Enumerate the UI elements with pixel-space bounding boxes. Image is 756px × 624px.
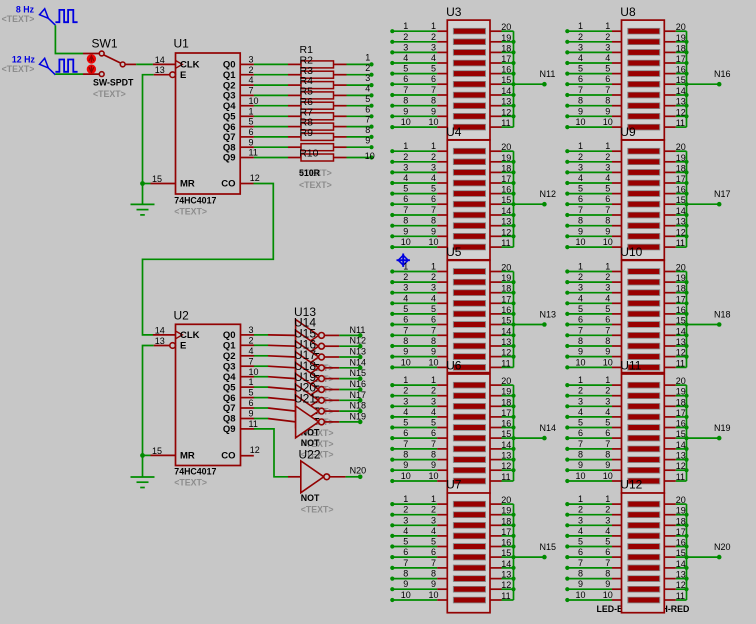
svg-text:Q1: Q1 bbox=[223, 341, 236, 352]
svg-text:8: 8 bbox=[578, 336, 583, 346]
svg-text:9: 9 bbox=[605, 347, 610, 357]
NOT gate U15 output terminal N13 bbox=[268, 327, 366, 395]
NOT gate U22 output terminal N20 bbox=[288, 447, 366, 514]
svg-text:14: 14 bbox=[501, 559, 511, 569]
svg-text:11: 11 bbox=[501, 118, 510, 128]
svg-text:U2: U2 bbox=[174, 309, 190, 323]
svg-text:5: 5 bbox=[578, 304, 583, 314]
svg-text:17: 17 bbox=[676, 294, 686, 304]
svg-text:2: 2 bbox=[578, 272, 583, 282]
svg-text:7: 7 bbox=[578, 439, 583, 449]
svg-text:10: 10 bbox=[365, 151, 375, 161]
svg-text:10: 10 bbox=[249, 96, 259, 106]
svg-text:SW1: SW1 bbox=[92, 36, 118, 50]
svg-text:4: 4 bbox=[403, 293, 408, 303]
svg-text:4: 4 bbox=[403, 53, 408, 63]
origin marker bbox=[397, 254, 410, 267]
NOT gate U19 output terminal N17 bbox=[268, 370, 366, 438]
svg-text:8: 8 bbox=[431, 450, 436, 460]
svg-text:14: 14 bbox=[676, 326, 686, 336]
svg-text:7: 7 bbox=[403, 205, 408, 215]
svg-text:9: 9 bbox=[431, 579, 436, 589]
svg-text:3: 3 bbox=[403, 42, 408, 52]
svg-text:6: 6 bbox=[578, 315, 583, 325]
svg-text:Q9: Q9 bbox=[223, 153, 236, 164]
svg-text:8: 8 bbox=[365, 125, 370, 135]
svg-text:16: 16 bbox=[676, 538, 686, 548]
svg-text:U7: U7 bbox=[446, 478, 462, 492]
svg-text:U1: U1 bbox=[174, 37, 190, 51]
svg-text:1: 1 bbox=[578, 494, 583, 504]
svg-text:2: 2 bbox=[403, 32, 408, 42]
counter U1 74HC4017 bbox=[151, 37, 260, 217]
LED bargraph U3 with terminals, net N11 bbox=[390, 5, 555, 140]
svg-text:7: 7 bbox=[578, 205, 583, 215]
svg-text:2: 2 bbox=[578, 152, 583, 162]
LED bargraph U8 with terminals, net N16 bbox=[565, 5, 730, 140]
svg-text:10: 10 bbox=[428, 117, 438, 127]
svg-text:E: E bbox=[180, 341, 186, 352]
svg-text:2: 2 bbox=[431, 386, 436, 396]
svg-text:1: 1 bbox=[249, 106, 254, 116]
svg-text:12: 12 bbox=[501, 348, 511, 358]
svg-text:8: 8 bbox=[578, 569, 583, 579]
svg-text:1: 1 bbox=[403, 141, 408, 151]
svg-text:7: 7 bbox=[578, 85, 583, 95]
svg-text:13: 13 bbox=[501, 217, 511, 227]
svg-text:5: 5 bbox=[249, 117, 254, 127]
svg-text:14: 14 bbox=[501, 440, 511, 450]
svg-text:11: 11 bbox=[249, 148, 258, 158]
svg-text:2: 2 bbox=[578, 505, 583, 515]
LED bargraph U7 with terminals, net N15 bbox=[390, 478, 556, 613]
svg-text:17: 17 bbox=[501, 527, 511, 537]
svg-text:4: 4 bbox=[403, 173, 408, 183]
svg-text:SW-SPDT: SW-SPDT bbox=[93, 78, 134, 88]
svg-text:6: 6 bbox=[249, 127, 254, 137]
svg-text:6: 6 bbox=[431, 547, 436, 557]
svg-text:13: 13 bbox=[501, 570, 511, 580]
svg-text:18: 18 bbox=[501, 397, 511, 407]
svg-text:Q4: Q4 bbox=[223, 372, 236, 383]
svg-text:5: 5 bbox=[403, 184, 408, 194]
svg-text:20: 20 bbox=[676, 142, 686, 152]
svg-text:1: 1 bbox=[605, 141, 610, 151]
svg-text:4: 4 bbox=[431, 53, 436, 63]
LED bargraph U9 with terminals, net N17 bbox=[565, 125, 730, 260]
svg-text:16: 16 bbox=[501, 65, 511, 75]
svg-text:2: 2 bbox=[605, 152, 610, 162]
svg-text:2: 2 bbox=[605, 386, 610, 396]
svg-text:4: 4 bbox=[605, 293, 610, 303]
svg-text:15: 15 bbox=[501, 316, 511, 326]
svg-text:12 Hz: 12 Hz bbox=[12, 54, 36, 64]
svg-text:18: 18 bbox=[501, 284, 511, 294]
svg-text:6: 6 bbox=[578, 547, 583, 557]
svg-text:1: 1 bbox=[431, 262, 436, 272]
svg-text:Q7: Q7 bbox=[223, 403, 236, 414]
NOT gate U21 output terminal N19 bbox=[268, 391, 366, 459]
svg-text:N19: N19 bbox=[714, 423, 731, 433]
svg-text:5: 5 bbox=[431, 64, 436, 74]
svg-text:17: 17 bbox=[676, 408, 686, 418]
wire ground junction to U2 pin 15 MR bbox=[140, 453, 150, 458]
svg-text:N16: N16 bbox=[350, 379, 367, 389]
svg-text:4: 4 bbox=[431, 293, 436, 303]
svg-text:13: 13 bbox=[676, 451, 686, 461]
wire 12Hz generator to SW1 bottom contact bbox=[55, 73, 83, 75]
svg-text:18: 18 bbox=[676, 163, 686, 173]
svg-text:4: 4 bbox=[578, 173, 583, 183]
svg-text:1: 1 bbox=[605, 494, 610, 504]
svg-text:N18: N18 bbox=[350, 401, 367, 411]
svg-text:2: 2 bbox=[403, 272, 408, 282]
svg-text:2: 2 bbox=[431, 152, 436, 162]
NOT gate U14 output terminal N12 bbox=[268, 316, 366, 384]
svg-text:7: 7 bbox=[431, 439, 436, 449]
svg-text:4: 4 bbox=[431, 173, 436, 183]
svg-text:19: 19 bbox=[501, 273, 511, 283]
svg-text:4: 4 bbox=[578, 293, 583, 303]
svg-text:3: 3 bbox=[605, 396, 610, 406]
svg-text:1: 1 bbox=[578, 141, 583, 151]
svg-text:3: 3 bbox=[578, 283, 583, 293]
svg-text:3: 3 bbox=[578, 396, 583, 406]
svg-text:2: 2 bbox=[431, 272, 436, 282]
svg-text:19: 19 bbox=[676, 33, 686, 43]
svg-text:19: 19 bbox=[501, 33, 511, 43]
svg-text:15: 15 bbox=[152, 174, 162, 184]
svg-text:2: 2 bbox=[403, 152, 408, 162]
svg-text:10: 10 bbox=[603, 117, 613, 127]
svg-text:8: 8 bbox=[431, 569, 436, 579]
svg-text:18: 18 bbox=[676, 397, 686, 407]
svg-text:Q3: Q3 bbox=[223, 361, 236, 372]
svg-text:U3: U3 bbox=[446, 5, 462, 19]
wires U2 Q0-Q8 to NOT gates U13-U21 bbox=[254, 335, 268, 419]
svg-text:6: 6 bbox=[605, 74, 610, 84]
svg-text:15: 15 bbox=[501, 195, 511, 205]
wire SW1 pole to U1 CLK pin 14 bbox=[136, 63, 153, 65]
svg-text:18: 18 bbox=[676, 43, 686, 53]
svg-text:7: 7 bbox=[605, 85, 610, 95]
svg-text:9: 9 bbox=[605, 460, 610, 470]
svg-text:6: 6 bbox=[578, 428, 583, 438]
svg-text:1: 1 bbox=[605, 21, 610, 31]
svg-text:10: 10 bbox=[249, 367, 259, 377]
svg-text:18: 18 bbox=[501, 516, 511, 526]
svg-text:3: 3 bbox=[605, 515, 610, 525]
NOT gate U17 output terminal N15 bbox=[268, 348, 366, 416]
LED bargraph U6 with terminals, net N14 bbox=[390, 359, 556, 494]
svg-text:R10: R10 bbox=[299, 148, 318, 160]
svg-text:19: 19 bbox=[676, 387, 686, 397]
svg-text:U12: U12 bbox=[620, 478, 642, 492]
svg-text:11: 11 bbox=[501, 591, 510, 601]
svg-text:U11: U11 bbox=[620, 359, 641, 373]
svg-text:74HC4017: 74HC4017 bbox=[174, 195, 216, 205]
svg-text:17: 17 bbox=[676, 54, 686, 64]
svg-text:13: 13 bbox=[501, 337, 511, 347]
svg-text:Q9: Q9 bbox=[223, 424, 236, 435]
svg-text:9: 9 bbox=[403, 347, 408, 357]
svg-text:1: 1 bbox=[431, 494, 436, 504]
svg-text:9: 9 bbox=[431, 226, 436, 236]
svg-text:15: 15 bbox=[676, 75, 686, 85]
svg-text:2: 2 bbox=[249, 65, 254, 75]
svg-text:18: 18 bbox=[501, 43, 511, 53]
svg-text:20: 20 bbox=[501, 22, 511, 32]
svg-text:6: 6 bbox=[365, 104, 370, 114]
svg-text:19: 19 bbox=[501, 153, 511, 163]
svg-text:9: 9 bbox=[403, 226, 408, 236]
svg-text:20: 20 bbox=[676, 376, 686, 386]
svg-text:7: 7 bbox=[605, 439, 610, 449]
svg-text:10: 10 bbox=[603, 471, 613, 481]
svg-text:CO: CO bbox=[221, 179, 235, 190]
svg-text:6: 6 bbox=[403, 194, 408, 204]
svg-text:Q1: Q1 bbox=[223, 70, 236, 81]
svg-text:10: 10 bbox=[428, 471, 438, 481]
svg-text:4: 4 bbox=[578, 526, 583, 536]
clock generator 8 Hz bbox=[2, 5, 78, 26]
svg-text:16: 16 bbox=[501, 419, 511, 429]
svg-text:9: 9 bbox=[605, 579, 610, 589]
svg-text:19: 19 bbox=[676, 273, 686, 283]
svg-text:12: 12 bbox=[501, 580, 511, 590]
svg-text:4: 4 bbox=[605, 53, 610, 63]
svg-text:5: 5 bbox=[578, 418, 583, 428]
svg-text:U21: U21 bbox=[294, 391, 316, 405]
svg-text:17: 17 bbox=[676, 174, 686, 184]
NOT gate U18 output terminal N16 bbox=[268, 359, 366, 427]
svg-text:11: 11 bbox=[676, 358, 685, 368]
svg-text:7: 7 bbox=[365, 115, 370, 125]
svg-text:4: 4 bbox=[365, 84, 370, 94]
svg-text:9: 9 bbox=[403, 460, 408, 470]
svg-text:9: 9 bbox=[578, 106, 583, 116]
svg-text:14: 14 bbox=[676, 206, 686, 216]
svg-text:1: 1 bbox=[431, 375, 436, 385]
svg-text:12: 12 bbox=[501, 461, 511, 471]
svg-text:8: 8 bbox=[431, 216, 436, 226]
svg-text:9: 9 bbox=[578, 347, 583, 357]
svg-text:10: 10 bbox=[401, 237, 411, 247]
svg-text:9: 9 bbox=[403, 106, 408, 116]
svg-text:MR: MR bbox=[180, 451, 195, 462]
svg-text:10: 10 bbox=[575, 590, 585, 600]
svg-text:5: 5 bbox=[605, 64, 610, 74]
svg-text:7: 7 bbox=[578, 558, 583, 568]
svg-text:11: 11 bbox=[501, 472, 510, 482]
svg-text:15: 15 bbox=[152, 446, 162, 456]
svg-text:7: 7 bbox=[605, 205, 610, 215]
svg-text:20: 20 bbox=[501, 142, 511, 152]
svg-text:2: 2 bbox=[365, 63, 370, 73]
svg-text:14: 14 bbox=[155, 55, 165, 65]
svg-text:11: 11 bbox=[249, 419, 258, 429]
svg-text:3: 3 bbox=[403, 515, 408, 525]
svg-text:8: 8 bbox=[578, 96, 583, 106]
svg-text:7: 7 bbox=[431, 325, 436, 335]
svg-text:U6: U6 bbox=[446, 359, 462, 373]
svg-text:N17: N17 bbox=[350, 390, 367, 400]
svg-text:6: 6 bbox=[249, 398, 254, 408]
svg-text:1: 1 bbox=[578, 375, 583, 385]
svg-text:12: 12 bbox=[250, 173, 260, 183]
svg-text:3: 3 bbox=[605, 283, 610, 293]
svg-text:5: 5 bbox=[431, 184, 436, 194]
svg-text:8: 8 bbox=[403, 336, 408, 346]
svg-text:10: 10 bbox=[603, 590, 613, 600]
svg-text:Q4: Q4 bbox=[223, 101, 236, 112]
svg-text:16: 16 bbox=[501, 185, 511, 195]
svg-text:16: 16 bbox=[501, 538, 511, 548]
wires U1 Q0-Q9 to resistor ladder bbox=[254, 64, 288, 157]
svg-text:6: 6 bbox=[403, 74, 408, 84]
svg-text:13: 13 bbox=[501, 451, 511, 461]
svg-text:2: 2 bbox=[578, 32, 583, 42]
svg-text:CLK: CLK bbox=[180, 330, 200, 341]
svg-text:2: 2 bbox=[578, 386, 583, 396]
svg-text:10: 10 bbox=[428, 590, 438, 600]
svg-text:8: 8 bbox=[578, 450, 583, 460]
wire U2 Q9 to NOT gate U22 bbox=[254, 429, 288, 477]
svg-text:7: 7 bbox=[403, 439, 408, 449]
svg-text:6: 6 bbox=[403, 315, 408, 325]
svg-text:3: 3 bbox=[578, 515, 583, 525]
svg-text:1: 1 bbox=[403, 21, 408, 31]
svg-text:U9: U9 bbox=[620, 125, 636, 139]
svg-text:8: 8 bbox=[403, 450, 408, 460]
svg-text:13: 13 bbox=[676, 97, 686, 107]
svg-text:10: 10 bbox=[401, 471, 411, 481]
svg-text:7: 7 bbox=[403, 325, 408, 335]
svg-text:5: 5 bbox=[605, 537, 610, 547]
svg-text:4: 4 bbox=[605, 407, 610, 417]
svg-text:E: E bbox=[180, 70, 186, 81]
svg-text:13: 13 bbox=[676, 217, 686, 227]
svg-text:1: 1 bbox=[431, 141, 436, 151]
svg-text:NOT: NOT bbox=[301, 493, 320, 503]
clock generator 12 Hz bbox=[2, 54, 78, 75]
svg-text:5: 5 bbox=[365, 94, 370, 104]
svg-text:U10: U10 bbox=[620, 245, 642, 259]
svg-text:14: 14 bbox=[676, 86, 686, 96]
svg-text:3: 3 bbox=[249, 55, 254, 65]
svg-text:6: 6 bbox=[431, 315, 436, 325]
svg-text:8: 8 bbox=[605, 569, 610, 579]
svg-text:11: 11 bbox=[501, 358, 510, 368]
svg-text:6: 6 bbox=[403, 428, 408, 438]
svg-text:4: 4 bbox=[403, 407, 408, 417]
svg-text:Q0: Q0 bbox=[223, 330, 236, 341]
svg-text:1: 1 bbox=[431, 21, 436, 31]
svg-text:9: 9 bbox=[605, 106, 610, 116]
svg-text:9: 9 bbox=[431, 460, 436, 470]
svg-text:15: 15 bbox=[501, 548, 511, 558]
LED bargraph U5 with terminals, net N13 bbox=[390, 245, 556, 372]
svg-text:Q6: Q6 bbox=[223, 393, 236, 404]
svg-text:6: 6 bbox=[431, 74, 436, 84]
svg-text:5: 5 bbox=[431, 537, 436, 547]
wire U2 pin 13 E to ground junction bbox=[143, 346, 154, 456]
svg-text:10: 10 bbox=[401, 357, 411, 367]
LED bargraph U11 with terminals, net N19 bbox=[565, 359, 730, 494]
svg-text:17: 17 bbox=[676, 527, 686, 537]
svg-text:13: 13 bbox=[155, 336, 165, 346]
svg-text:15: 15 bbox=[676, 316, 686, 326]
svg-text:6: 6 bbox=[578, 74, 583, 84]
svg-text:6: 6 bbox=[605, 315, 610, 325]
svg-text:6: 6 bbox=[578, 194, 583, 204]
svg-text:4: 4 bbox=[578, 407, 583, 417]
svg-text:N17: N17 bbox=[714, 189, 731, 199]
svg-text:N12: N12 bbox=[540, 189, 557, 199]
svg-text:20: 20 bbox=[676, 22, 686, 32]
wire ground junction to U1 pin 15 MR bbox=[140, 181, 150, 186]
svg-text:3: 3 bbox=[578, 42, 583, 52]
svg-text:1: 1 bbox=[578, 21, 583, 31]
svg-text:6: 6 bbox=[431, 428, 436, 438]
svg-text:17: 17 bbox=[501, 294, 511, 304]
svg-text:10: 10 bbox=[575, 357, 585, 367]
svg-text:9: 9 bbox=[578, 460, 583, 470]
svg-text:10: 10 bbox=[575, 117, 585, 127]
svg-text:12: 12 bbox=[676, 107, 686, 117]
svg-text:2: 2 bbox=[431, 32, 436, 42]
svg-text:U8: U8 bbox=[620, 5, 636, 19]
svg-text:1: 1 bbox=[605, 262, 610, 272]
svg-text:20: 20 bbox=[501, 376, 511, 386]
svg-text:14: 14 bbox=[501, 206, 511, 216]
LED bargraph U10 with terminals, net N18 bbox=[565, 245, 730, 372]
svg-text:5: 5 bbox=[578, 184, 583, 194]
svg-text:N16: N16 bbox=[714, 69, 731, 79]
svg-text:8: 8 bbox=[605, 96, 610, 106]
svg-text:N15: N15 bbox=[350, 368, 367, 378]
svg-text:20: 20 bbox=[676, 495, 686, 505]
svg-text:18: 18 bbox=[501, 163, 511, 173]
svg-text:7: 7 bbox=[605, 325, 610, 335]
svg-text:17: 17 bbox=[501, 408, 511, 418]
svg-text:U22: U22 bbox=[299, 447, 321, 461]
svg-text:74HC4017: 74HC4017 bbox=[174, 467, 216, 477]
svg-text:10: 10 bbox=[575, 471, 585, 481]
svg-text:8 Hz: 8 Hz bbox=[16, 5, 35, 15]
svg-text:4: 4 bbox=[403, 526, 408, 536]
svg-text:7: 7 bbox=[249, 356, 254, 366]
svg-text:3: 3 bbox=[431, 162, 436, 172]
svg-text:10: 10 bbox=[401, 117, 411, 127]
resistor ladder R1-R10 510R with output terminals 1-10 bbox=[288, 44, 375, 190]
svg-text:12: 12 bbox=[676, 348, 686, 358]
svg-text:19: 19 bbox=[676, 506, 686, 516]
svg-text:N20: N20 bbox=[714, 542, 731, 552]
svg-text:4: 4 bbox=[605, 173, 610, 183]
svg-text:1: 1 bbox=[578, 262, 583, 272]
svg-text:12: 12 bbox=[676, 227, 686, 237]
NOT gate U13 output terminal N11 bbox=[268, 305, 365, 373]
svg-text:15: 15 bbox=[676, 195, 686, 205]
svg-text:7: 7 bbox=[578, 325, 583, 335]
svg-text:N18: N18 bbox=[714, 309, 731, 319]
svg-text:5: 5 bbox=[605, 304, 610, 314]
svg-text:6: 6 bbox=[605, 194, 610, 204]
svg-text:3: 3 bbox=[249, 325, 254, 335]
counter U2 74HC4017 bbox=[151, 309, 260, 488]
svg-text:5: 5 bbox=[403, 537, 408, 547]
